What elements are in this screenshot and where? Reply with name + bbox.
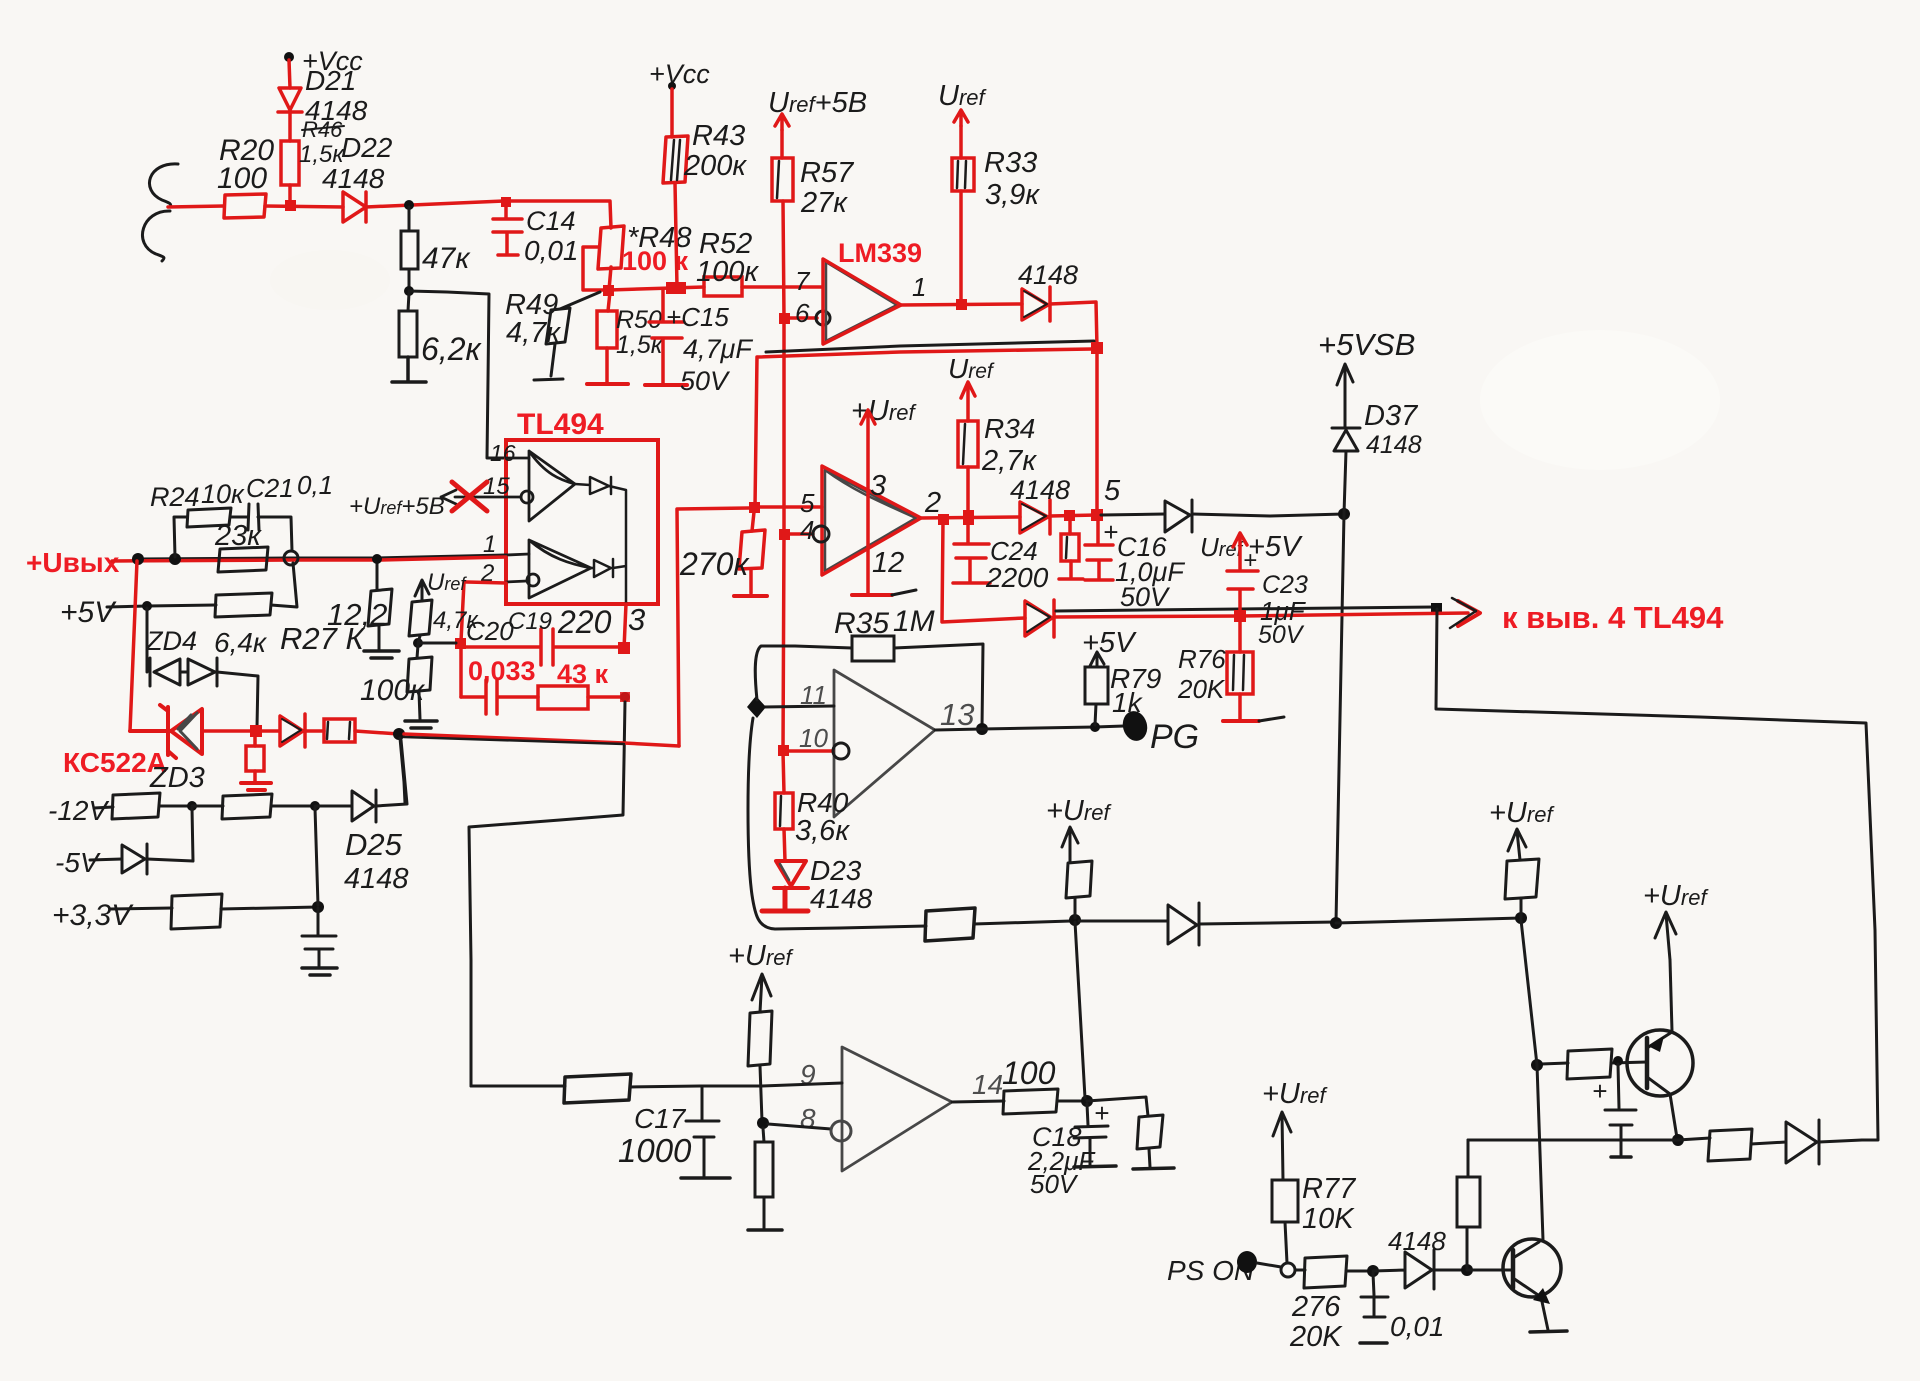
svg-text:-12V: -12V	[48, 795, 109, 826]
wire -5V diode to -12V node	[147, 808, 193, 861]
svg-text:8: 8	[800, 1103, 816, 1134]
pin9 wire from pin3 net	[471, 1085, 565, 1088]
svg-text:6: 6	[795, 298, 810, 328]
D37 node dot	[1330, 917, 1342, 929]
wire from base circuit corner to Q1 emitter node	[1468, 1139, 1678, 1142]
op-amp LM339 comparator 2	[825, 470, 916, 571]
TL494 error amp 2 triangle	[529, 540, 591, 598]
comparator2 output wire	[921, 517, 1020, 518]
pin3 +Uref arrow and wire through to pin12 ground	[861, 410, 875, 593]
svg-text:16: 16	[490, 440, 516, 466]
svg-text:R77: R77	[1302, 1173, 1357, 1205]
wire Uref to R33	[959, 126, 963, 158]
svg-text:1k: 1k	[1112, 687, 1144, 718]
wire diode to Q2 base node	[1434, 1269, 1467, 1272]
svg-text:4148: 4148	[322, 163, 385, 194]
diode D23 4148	[774, 861, 808, 888]
Uref+5B arrow	[775, 114, 789, 130]
red vertical from upper corner to C16 junction	[1095, 348, 1099, 515]
wire R57 down to pin6 and pin4 and pin10	[783, 201, 784, 750]
svg-text:TL494: TL494	[517, 408, 604, 441]
black wire C16 junction to diode	[1101, 514, 1165, 515]
C19 capacitor 220	[466, 629, 618, 665]
svg-text:3: 3	[628, 602, 645, 637]
output2 node squares	[938, 514, 949, 525]
Uref arrow (R33)	[954, 110, 968, 126]
Uref arrow (R34)	[961, 382, 975, 421]
comparator 3 (pins 11/10/13)	[834, 670, 935, 817]
diode 4148 (PSON)	[1373, 1250, 1434, 1289]
pin10 junction square	[778, 745, 789, 756]
resistor right of Q1 emitter node	[1678, 1138, 1710, 1140]
svg-text:10: 10	[799, 723, 828, 753]
svg-text:D25: D25	[345, 827, 403, 862]
svg-text:4148: 4148	[810, 883, 873, 914]
paper smudge artifacts	[270, 250, 390, 310]
resistor R49 4,7k	[560, 292, 600, 309]
svg-text:+5V: +5V	[60, 596, 117, 629]
ground under capacitor	[302, 968, 337, 975]
capacitor C21 0,1	[248, 504, 259, 530]
ground under 12,2	[364, 651, 399, 658]
wire C14 node to R48 corner	[504, 201, 611, 228]
k-vyv arrow head	[1458, 601, 1480, 626]
resistor right of C18	[1137, 1115, 1163, 1149]
capacitor 0,01 (PSON)	[1361, 1273, 1388, 1317]
node C junction squares	[603, 285, 614, 296]
wire R20 to node	[265, 206, 343, 207]
PSON wire to circle node	[1257, 1263, 1281, 1267]
PG blob terminal	[1120, 708, 1151, 743]
wire +Vcc to R43	[670, 89, 674, 137]
transistor Q1 (PNP)	[1627, 1030, 1693, 1096]
node G circle	[312, 901, 324, 913]
ground tick under Q1 cap	[1611, 1155, 1631, 1159]
red vertical from corner up and across to pin5 junction	[677, 508, 749, 746]
C16 junction squares	[1064, 510, 1075, 521]
resistor lower (divider x760)	[763, 1128, 764, 1142]
C20/43k node on pin3 vertical	[620, 692, 630, 702]
-12V node dot	[187, 801, 197, 811]
Uref arrow (divider)	[415, 580, 429, 601]
svg-text:Uref: Uref	[427, 569, 467, 596]
capacitor C23 1uF	[1227, 571, 1258, 614]
wire D25 up to node E	[376, 740, 407, 806]
svg-text:4148: 4148	[1388, 1226, 1446, 1256]
+3,3V wire	[110, 908, 172, 909]
diode on k-vyv bus	[1025, 600, 1054, 637]
wire to base node dot	[1336, 918, 1521, 923]
pin4 stub to bubble	[790, 532, 813, 536]
svg-text:2,7к: 2,7к	[981, 445, 1037, 477]
ground under 0,01	[1360, 1341, 1387, 1345]
+5VSB arrow	[1337, 364, 1353, 428]
wire chain to node E	[305, 731, 399, 734]
svg-text:R40: R40	[797, 787, 849, 818]
C18 node dot	[1081, 1095, 1093, 1107]
svg-text:+Uref: +Uref	[728, 940, 794, 972]
capacitor C24 2200	[953, 520, 990, 583]
C17 capacitor 1000	[686, 1087, 719, 1176]
op-amp LM339 comparator 1	[826, 262, 897, 341]
svg-text:R24: R24	[150, 482, 200, 512]
Q1 base resistor	[1541, 1063, 1568, 1064]
R48 wiper	[583, 247, 606, 290]
red wire output2 node down to k-vyv bus	[942, 521, 1025, 622]
svg-text:ZD3: ZD3	[149, 762, 205, 794]
R35 feedback loop left	[755, 646, 852, 700]
resistor 12,2 (pin1 to gnd)	[376, 562, 379, 590]
vertical node F to node G	[315, 808, 318, 905]
svg-text:C19: C19	[508, 608, 552, 635]
node A dot	[404, 200, 414, 210]
svg-text:C20: C20	[466, 616, 514, 646]
resistor R50 1,5k	[608, 292, 610, 311]
zener ZD3 KC522A	[130, 705, 202, 758]
svg-text:PG: PG	[1150, 718, 1199, 756]
svg-text:R50: R50	[616, 306, 662, 334]
wire diode to right edge loop	[1819, 1140, 1862, 1142]
node diamond on pin11	[747, 696, 766, 718]
diode D25 4148	[315, 790, 376, 822]
wire 6,4k to pin1 node	[271, 563, 297, 607]
wire 47k to node B	[408, 269, 411, 291]
svg-text:1,5к: 1,5к	[616, 331, 664, 359]
capacitor C16 1,0uF	[1085, 521, 1113, 580]
svg-text:5: 5	[800, 488, 815, 518]
wire D22 to node A	[366, 201, 504, 207]
svg-text:6,4к: 6,4к	[214, 627, 268, 658]
red vertical C19 to C20 branch	[459, 649, 463, 697]
diode on -5V line	[122, 844, 147, 874]
pin8 input bubble	[831, 1121, 851, 1141]
resistor R20	[224, 194, 266, 218]
svg-text:2200: 2200	[985, 562, 1049, 593]
wire diode to corner down	[1050, 302, 1097, 348]
resistor R76' 20K (276)	[1295, 1269, 1305, 1272]
wire ZD4 to ZD3 node	[217, 672, 258, 727]
wire +Vcc to D21	[289, 60, 290, 88]
TL494 pin3 red stub	[624, 604, 626, 649]
+Uref arrow (divider x760)	[752, 974, 771, 1012]
svg-text:13: 13	[940, 697, 974, 732]
pin8 wire to bubble	[768, 1124, 831, 1129]
svg-text:-5V: -5V	[55, 847, 101, 878]
long black feedback wire upper	[766, 341, 1094, 352]
resistor 4,7k (divider upper)	[409, 600, 432, 636]
pin8 node dot	[757, 1117, 769, 1129]
wire node A down to 47k	[408, 207, 411, 231]
vertical +Uref lower bus node to C18 node	[1075, 922, 1085, 1098]
svg-text:4,7μF: 4,7μF	[683, 334, 753, 364]
wire LM339-1 output	[901, 304, 1022, 305]
svg-text:C17: C17	[634, 1103, 687, 1134]
node dots on pin1 wire	[132, 553, 144, 565]
diode 4148 on output2	[1020, 500, 1050, 534]
junction square at right corner	[1091, 342, 1103, 354]
svg-text:+: +	[1103, 517, 1118, 547]
svg-text:0,01: 0,01	[1390, 1311, 1445, 1342]
+Uvyh red vertical down to ZD3	[130, 561, 137, 731]
pin4 input bubble	[813, 526, 829, 542]
resistor 43k	[538, 686, 588, 709]
svg-text:D37: D37	[1364, 400, 1419, 432]
svg-text:0,033: 0,033	[468, 656, 536, 686]
svg-text:3,9к: 3,9к	[985, 179, 1040, 211]
svg-text:+: +	[1592, 1076, 1607, 1106]
junction dot on D37 line	[1338, 508, 1350, 520]
capacitor C18 2,2uF	[1074, 1104, 1108, 1165]
svg-text:27к: 27к	[800, 187, 848, 219]
wire node E down to D25	[400, 738, 405, 803]
svg-text:4148: 4148	[344, 863, 409, 895]
svg-text:ZD4: ZD4	[145, 626, 197, 656]
output1 node square	[956, 299, 967, 310]
resistor on lower bus	[925, 908, 975, 941]
wire diode to D37 line	[1192, 514, 1344, 516]
svg-text:6,2к: 6,2к	[421, 331, 482, 367]
second resistor on -12V line	[192, 805, 223, 808]
trimmer R48	[598, 226, 624, 269]
Q1 emitter node dot	[1672, 1134, 1684, 1146]
svg-text:4: 4	[800, 515, 814, 545]
svg-text:100к: 100к	[360, 674, 426, 707]
svg-text:20K: 20K	[1177, 674, 1226, 704]
svg-text:+Vcc: +Vcc	[649, 59, 710, 89]
wire +Uref to Q1 collector	[1670, 960, 1672, 1031]
resistor 100k (divider lower)	[417, 645, 418, 658]
svg-text:R27 К: R27 К	[280, 621, 365, 656]
svg-text:+Uref: +Uref	[1643, 880, 1709, 912]
svg-text:4148: 4148	[1010, 475, 1070, 505]
cap node dot	[1367, 1265, 1379, 1277]
node dot at R79	[1090, 722, 1100, 732]
svg-text:+5V: +5V	[1082, 627, 1137, 659]
divider node square	[455, 638, 466, 649]
red wire node E to pin3 corner	[404, 734, 679, 746]
pin3 long vertical down	[469, 702, 625, 1086]
wire +5V node down to ZD4	[146, 608, 149, 672]
small resistor under node D	[253, 737, 257, 746]
pin6 input bubble	[816, 311, 830, 325]
diode D21 4148	[278, 88, 302, 112]
svg-text:R57: R57	[800, 157, 855, 189]
ground under 6,2k	[392, 357, 426, 382]
svg-text:+Uref: +Uref	[1489, 797, 1555, 829]
small resistor under C16 junction	[1068, 521, 1072, 534]
resistor 100 (output14)	[1003, 1089, 1058, 1114]
pin5 junction square	[749, 502, 760, 513]
svg-text:50V: 50V	[680, 366, 731, 396]
wire R43 to node C	[675, 183, 677, 287]
svg-text:D21: D21	[305, 65, 356, 96]
wire C18 node to right resistor	[1087, 1097, 1148, 1116]
ground under 100k	[405, 721, 437, 728]
wire ZD3 to node D	[202, 729, 255, 733]
svg-text:1000: 1000	[618, 1132, 692, 1169]
black wire parallel on k-vyv bus	[1056, 607, 1434, 611]
svg-text:D23: D23	[810, 855, 862, 886]
resistor R57 27k	[772, 158, 793, 201]
svg-text:200к: 200к	[683, 150, 747, 182]
svg-text:D22: D22	[341, 132, 393, 163]
svg-text:276: 276	[1291, 1291, 1341, 1323]
diode D24 on ZD3 chain	[262, 714, 305, 747]
ground under C17	[681, 1176, 730, 1180]
Q2 base node dot	[1461, 1264, 1473, 1276]
wire R46 to node	[288, 185, 292, 203]
svg-text:LM339: LM339	[838, 238, 922, 268]
pin4 junction square	[779, 529, 790, 540]
svg-text:+5VSB: +5VSB	[1318, 327, 1415, 362]
red k-vyv bus wire	[1054, 613, 1468, 617]
svg-text:100: 100	[1002, 1055, 1056, 1091]
main red bus node C to R52	[609, 287, 704, 290]
svg-text:+Uref: +Uref	[1262, 1078, 1328, 1110]
red X cross on pin15	[452, 482, 487, 511]
svg-text:R43: R43	[692, 120, 745, 152]
wire diode to D37 node	[1199, 922, 1336, 924]
internal wire to pin3	[609, 486, 626, 604]
resistor on +3,3V line	[171, 894, 222, 929]
svg-text:C23: C23	[1262, 571, 1308, 599]
R40 3,6k	[783, 752, 784, 793]
ground under R76	[1223, 719, 1259, 723]
+Vcc terminal	[284, 52, 294, 62]
diode 4148 after output1	[1022, 287, 1050, 321]
svg-text:R35: R35	[834, 607, 889, 640]
output14 wire	[952, 1101, 1004, 1102]
+5V wire	[107, 605, 216, 607]
resistor R76 20K	[1238, 622, 1242, 652]
svg-text:100 к: 100 к	[622, 246, 689, 276]
R79 arrow	[1090, 652, 1104, 667]
svg-text:100: 100	[217, 162, 267, 195]
+Uref node dot on lower bus	[1069, 914, 1081, 926]
divider node dot	[413, 638, 423, 648]
output13 wire to PG	[935, 726, 1124, 730]
svg-text:50V: 50V	[1120, 582, 1171, 612]
svg-text:C21: C21	[246, 473, 294, 503]
+Uref arrow (node 1521)	[1508, 829, 1526, 860]
svg-text:C14: C14	[526, 206, 576, 236]
node E dot	[393, 728, 405, 740]
svg-text:R76: R76	[1178, 644, 1226, 674]
svg-text:50V: 50V	[1258, 621, 1305, 649]
resistor +Uref to node 1521	[1505, 859, 1539, 899]
svg-text:0,01: 0,01	[524, 235, 579, 266]
TL494 error amp 1 triangle	[529, 451, 575, 521]
transformer winding coil	[142, 164, 178, 261]
pin6 junction square	[779, 313, 790, 324]
svg-text:47к: 47к	[422, 242, 471, 275]
black junction square on k-vyv bus	[1431, 603, 1442, 614]
pin3 node square (C19)	[618, 642, 630, 654]
svg-text:3,6к: 3,6к	[795, 815, 850, 847]
ground under divider x760	[748, 1228, 782, 1232]
capacitor under node G	[302, 908, 336, 966]
pin10 input bubble	[833, 743, 849, 759]
pin11 wire	[763, 706, 834, 707]
black loop from k-vyv node down right side	[1436, 609, 1878, 1140]
resistor R34 2,7k	[958, 421, 978, 467]
wire 276 to cap node	[1346, 1270, 1373, 1273]
svg-text:50V: 50V	[1030, 1169, 1079, 1199]
ground under 270k	[734, 594, 767, 598]
resistor R46 1,5k	[281, 141, 299, 185]
ground under Q2 emitter	[1530, 1331, 1567, 1332]
R24 upper loop wires	[174, 517, 292, 557]
resistor 270k to ground	[752, 512, 754, 531]
resistor R77 10K	[1272, 1180, 1298, 1222]
resistor R43 200k	[663, 136, 688, 183]
transistor Q2 (NPN)	[1503, 1239, 1561, 1297]
ground under C18	[1074, 1166, 1116, 1167]
-5V wire	[90, 859, 122, 860]
diode D22 4148	[343, 192, 366, 222]
svg-text:20K: 20K	[1289, 1321, 1343, 1353]
svg-text:+C15: +C15	[666, 302, 729, 332]
resistor R24 10k	[187, 508, 231, 527]
svg-text:+: +	[1094, 1098, 1109, 1128]
resistor above Q2 base node	[1457, 1177, 1480, 1227]
wire node B to TL494 pin16	[409, 291, 505, 458]
svg-text:+Uref: +Uref	[1046, 795, 1112, 827]
svg-text:R33: R33	[984, 147, 1037, 179]
svg-text:10K: 10K	[1302, 1203, 1355, 1235]
pin15 arrow to +Uref+5B	[441, 490, 456, 504]
wire R52 to LM339 pin7	[742, 285, 822, 289]
pin6 stub to bubble	[790, 316, 817, 320]
capacitor C15 4,7uF	[649, 289, 684, 383]
wire through pin9 line	[760, 1066, 762, 1121]
wire Q2 base	[1467, 1269, 1512, 1272]
svg-text:к выв. 4 TL494: к выв. 4 TL494	[1502, 600, 1724, 635]
resistor 6,4k	[215, 593, 272, 617]
svg-text:14: 14	[972, 1069, 1003, 1100]
capacitor at Q1 base node	[1605, 1064, 1636, 1155]
zener ZD4 pair	[150, 658, 217, 686]
svg-text:4148: 4148	[1018, 260, 1078, 290]
svg-text:1: 1	[912, 272, 926, 302]
resistor 6,2k	[408, 293, 409, 311]
wire Uref+5B to R57	[780, 130, 784, 158]
wire R33 down to output1 node	[959, 191, 963, 303]
svg-text:3: 3	[870, 470, 886, 502]
big curve from pin11 node down to lower bus	[748, 718, 840, 929]
vertical from lower bus node to Q2 collector	[1521, 920, 1543, 1240]
red vertical corner to pin5 junction	[755, 357, 757, 507]
wire diode to C16 junction	[1050, 515, 1097, 516]
wire resistor100 to C18 node	[1057, 1100, 1087, 1103]
svg-text:+Uref+5В: +Uref+5В	[349, 493, 445, 520]
wire D21 to R46	[288, 112, 292, 141]
svg-text:270к: 270к	[679, 546, 750, 582]
svg-text:10к: 10к	[201, 479, 245, 509]
node junction R20/D21/D22	[285, 200, 296, 211]
resistor 23k	[218, 547, 268, 572]
R35 loop right to output 13	[894, 644, 983, 728]
resistor +Uref upper (divider x760)	[748, 1011, 772, 1066]
wire R40 to D23	[784, 829, 785, 861]
svg-text:+: +	[1243, 547, 1257, 574]
svg-text:+3,3V: +3,3V	[52, 899, 134, 932]
resistor R79 1k	[1085, 667, 1108, 704]
long red feedback wire upper	[758, 349, 1092, 357]
pin10 red stub	[789, 749, 833, 753]
node B dot	[404, 286, 414, 296]
ground under R50	[587, 382, 628, 386]
